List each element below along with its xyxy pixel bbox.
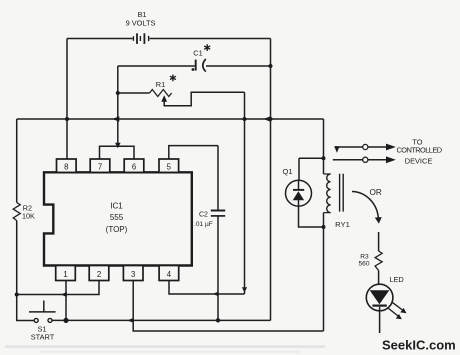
svg-text:LED: LED [389,275,403,284]
svg-text:(TOP): (TOP) [106,225,128,234]
svg-text:2: 2 [97,270,101,279]
svg-text:9 VOLTS: 9 VOLTS [126,18,156,27]
svg-text:CONTROLLED: CONTROLLED [396,146,441,155]
svg-text:6: 6 [132,162,136,171]
svg-text:DEVICE: DEVICE [405,157,433,166]
svg-text:555: 555 [110,213,124,222]
svg-text:8: 8 [64,162,68,171]
svg-text:4: 4 [167,270,172,279]
svg-text:560: 560 [358,260,369,267]
svg-text:SeekIC.com: SeekIC.com [382,338,456,353]
svg-text:7: 7 [98,162,102,171]
svg-text:OR: OR [369,188,381,197]
svg-text:1: 1 [63,270,67,279]
svg-text:RY1: RY1 [335,220,350,229]
svg-text:5: 5 [167,162,172,171]
svg-text:.01 µF: .01 µF [194,221,213,228]
svg-text:C1: C1 [193,49,202,58]
svg-text:Q1: Q1 [283,167,293,176]
svg-text:10K: 10K [22,211,35,220]
svg-text:3: 3 [131,270,135,279]
svg-text:START: START [31,332,55,341]
svg-text:R3: R3 [360,253,369,260]
svg-text:R1: R1 [156,80,165,89]
svg-text:C2: C2 [199,212,208,219]
svg-text:IC1: IC1 [110,201,123,210]
